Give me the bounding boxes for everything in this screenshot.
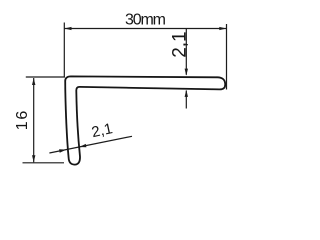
svg-text:30mm: 30mm — [125, 12, 166, 29]
svg-text:2,1: 2,1 — [170, 31, 191, 57]
svg-text:16: 16 — [14, 111, 31, 131]
